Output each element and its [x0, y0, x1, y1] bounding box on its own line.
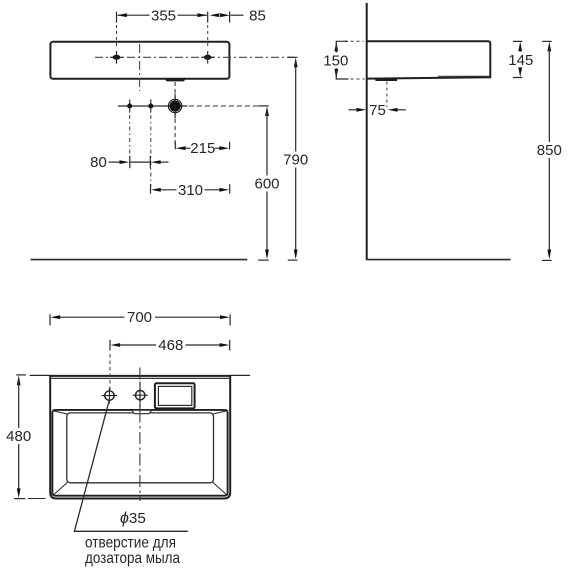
- front view: drain tab under body: [165, 79, 186, 82]
- svg-text:80: 80: [90, 154, 107, 171]
- top view: overflow box inner: [158, 386, 191, 405]
- dimension 355: [117, 8, 208, 49]
- dimension 85: [210, 8, 266, 25]
- svg-text:850: 850: [537, 142, 562, 159]
- svg-text:отверстие для: отверстие для: [85, 535, 176, 552]
- dimension 480: [6, 375, 45, 499]
- front view: drain horizontal line solid then dashed to 600 dim: [118, 105, 188, 107]
- svg-text:ϕ35: ϕ35: [120, 510, 146, 527]
- dimension 700: [50, 309, 230, 326]
- svg-text:145: 145: [508, 52, 533, 69]
- top view: faucet hole: [133, 382, 148, 410]
- side view: drain tab: [375, 79, 397, 81]
- front view: water inlet dot 2: [148, 99, 153, 186]
- front view: sink body outline: [50, 42, 229, 79]
- top view: back edge extension line: [30, 374, 250, 376]
- dimension 600: [254, 106, 279, 260]
- front view: vertical center line: [139, 44, 141, 91]
- top view: overflow slot: [132, 410, 152, 414]
- dimension 80: [90, 154, 168, 171]
- top view: basin corner chamfer lines: [53, 411, 226, 495]
- front view: water inlet dot 1: [127, 99, 132, 158]
- top view: backsplash second line: [51, 377, 229, 379]
- floor line (front view): [31, 259, 248, 261]
- side view: inner bottom line: [438, 75, 490, 77]
- svg-text:468: 468: [158, 337, 183, 354]
- front view: right mounting hole: [201, 51, 214, 64]
- top view: overflow box outer: [155, 383, 195, 408]
- svg-text:355: 355: [151, 8, 176, 25]
- side view: sink body outline: [367, 41, 490, 78]
- svg-text:85: 85: [249, 8, 266, 25]
- side view: drain dashed extension: [386, 82, 388, 108]
- floor line (side view): [367, 259, 511, 261]
- svg-text:790: 790: [283, 152, 308, 169]
- leader line for soap dispenser hole: [74, 401, 187, 532]
- svg-text:480: 480: [6, 428, 31, 445]
- dimension 790: [283, 57, 308, 260]
- front view: horizontal center line through mounting holes: [95, 56, 294, 58]
- svg-text:215: 215: [190, 140, 215, 157]
- svg-text:600: 600: [254, 176, 279, 193]
- svg-text:150: 150: [323, 53, 348, 70]
- dimension 310: [151, 182, 230, 199]
- dimension 145: [508, 41, 533, 77]
- dimension 468: [110, 337, 230, 390]
- dimension 150: [323, 41, 364, 79]
- dimension 75: [349, 102, 406, 119]
- top view: soap dispenser hole: [102, 388, 118, 404]
- wall line: [366, 3, 368, 260]
- front view: left mounting hole: [110, 51, 123, 64]
- svg-text:дозатора мыла: дозатора мыла: [85, 550, 180, 567]
- front view: drain circle: [168, 94, 181, 119]
- svg-text:75: 75: [369, 102, 386, 119]
- dimension 850: [537, 41, 562, 260]
- top view: basin rim outline: [52, 410, 227, 496]
- svg-text:310: 310: [178, 182, 203, 199]
- svg-text:700: 700: [127, 309, 152, 326]
- top view: center line (dash-dot): [139, 368, 141, 502]
- front view: drain dashed extension above/below circle: [174, 82, 176, 147]
- top view: outer body outline: [50, 376, 230, 499]
- dimension 215: [175, 140, 229, 157]
- top view: basin bottom outline: [67, 413, 214, 483]
